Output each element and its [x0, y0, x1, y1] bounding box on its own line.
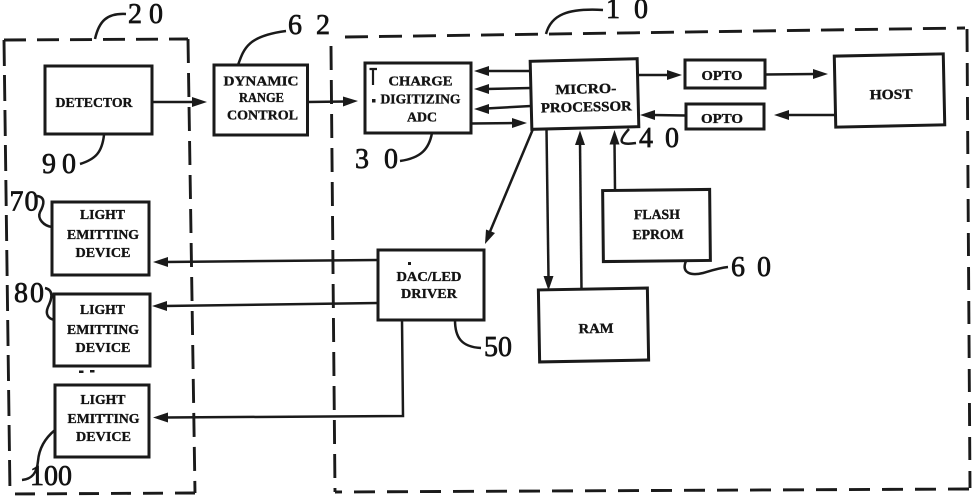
- dashed enclosure 20: [4, 39, 195, 494]
- box DETECTOR: [45, 66, 152, 134]
- wire DYNAMIC RANGE CONTROL to ADC: [307, 97, 358, 107]
- svg-text:DETECTOR: DETECTOR: [56, 96, 134, 111]
- svg-text:ADC: ADC: [407, 111, 437, 126]
- svg-text:FLASH: FLASH: [634, 208, 680, 223]
- svg-text:RANGE: RANGE: [239, 91, 284, 106]
- svg-text:70: 70: [10, 187, 40, 218]
- wire MICRO-PROCESSOR to OPTO top: [637, 70, 682, 80]
- wire DETECTOR to DYNAMIC RANGE CONTROL: [152, 97, 207, 107]
- box MICRO-PROCESSOR: [530, 59, 639, 130]
- wire MICRO-PROCESSOR to ADC bus line 2: [474, 84, 531, 94]
- label 100 with leader: [22, 430, 72, 492]
- wire HOST to OPTO bottom: [774, 110, 835, 120]
- box LIGHT EMITTING DEVICE 100: [55, 385, 149, 457]
- svg-text:MICRO-: MICRO-: [555, 82, 617, 98]
- svg-text:CHARGE: CHARGE: [389, 75, 453, 90]
- label 10 with leader: [546, 0, 662, 34]
- svg-text:20: 20: [128, 0, 170, 30]
- svg-text:EMITTING: EMITTING: [67, 228, 139, 243]
- wire OPTO top to HOST: [765, 69, 828, 79]
- svg-text:HOST: HOST: [869, 87, 913, 103]
- svg-text:PROCESSOR: PROCESSOR: [541, 99, 633, 116]
- label 60 with leader: [685, 252, 783, 283]
- label 40 with leader: [622, 123, 691, 154]
- svg-text:DYNAMIC: DYNAMIC: [224, 75, 299, 90]
- wire DAC/LED DRIVER to LIGHT EMITTING DEVICE 80: [152, 301, 378, 311]
- dashed enclosure 10: [331, 28, 970, 492]
- box DYNAMIC RANGE CONTROL: [214, 65, 308, 135]
- wire RAM to MICRO-PROCESSOR read: [575, 131, 585, 291]
- box RAM: [538, 288, 648, 362]
- svg-text:RAM: RAM: [578, 322, 613, 338]
- svg-text:80: 80: [14, 278, 46, 309]
- label 50 with leader: [455, 320, 512, 363]
- svg-text:LIGHT: LIGHT: [81, 393, 127, 408]
- svg-text:OPTO: OPTO: [701, 112, 743, 127]
- svg-text:LIGHT: LIGHT: [80, 303, 126, 318]
- label 90 with leader: [42, 135, 104, 180]
- box OPTO bottom: [686, 104, 764, 129]
- box DAC/LED DRIVER: [378, 250, 484, 320]
- box LIGHT EMITTING DEVICE 80: [54, 294, 150, 366]
- box OPTO top: [685, 60, 765, 88]
- svg-text:CONTROL: CONTROL: [227, 109, 298, 124]
- wire MICRO-PROCESSOR to RAM write: [544, 129, 554, 291]
- wire OPTO bottom to MICRO-PROCESSOR: [640, 110, 686, 120]
- svg-text:DAC/LED: DAC/LED: [397, 270, 462, 285]
- svg-text:62: 62: [288, 10, 344, 41]
- label 62 with leader: [238, 10, 344, 65]
- wire DAC/LED DRIVER to LIGHT EMITTING DEVICE 100: [153, 320, 403, 423]
- svg-text:100: 100: [30, 461, 72, 492]
- svg-text:DRIVER: DRIVER: [401, 287, 458, 302]
- label 30 with leader: [355, 133, 432, 175]
- svg-text:10: 10: [606, 0, 662, 25]
- svg-text:DEVICE: DEVICE: [76, 341, 131, 356]
- box LIGHT EMITTING DEVICE 70: [52, 202, 149, 275]
- stray scan marks below LED 80: [79, 370, 95, 373]
- svg-text:EMITTING: EMITTING: [67, 323, 139, 338]
- svg-text:LIGHT: LIGHT: [80, 208, 126, 223]
- svg-text:DEVICE: DEVICE: [76, 430, 131, 445]
- svg-text:30: 30: [355, 144, 413, 175]
- wire DAC/LED DRIVER to LIGHT EMITTING DEVICE 70: [153, 257, 378, 267]
- label 70 with leader: [10, 187, 53, 228]
- svg-text:90: 90: [42, 149, 82, 180]
- svg-text:60: 60: [731, 252, 783, 283]
- svg-text:40: 40: [639, 123, 691, 154]
- label 20 with leader: [95, 0, 170, 39]
- wire MICRO-PROCESSOR to ADC bus line 1: [474, 66, 531, 76]
- svg-text:OPTO: OPTO: [702, 69, 743, 84]
- svg-text:EPROM: EPROM: [633, 228, 684, 244]
- box HOST: [834, 54, 944, 127]
- svg-text:DIGITIZING: DIGITIZING: [381, 93, 461, 108]
- wire FLASH EPROM to MICRO-PROCESSOR: [610, 130, 620, 190]
- svg-text:EMITTING: EMITTING: [68, 412, 140, 427]
- wire ADC to MICRO-PROCESSOR line 4: [471, 118, 527, 128]
- svg-text:50: 50: [484, 332, 512, 363]
- svg-text:DEVICE: DEVICE: [76, 246, 131, 261]
- box CHARGE DIGITIZING ADC: [365, 63, 471, 133]
- wire MICRO-PROCESSOR to DAC/LED DRIVER diagonal: [485, 129, 533, 244]
- label 80 with leader: [14, 278, 55, 320]
- box FLASH EPROM: [603, 189, 711, 261]
- wire MICRO-PROCESSOR to ADC bus line 3: [474, 104, 531, 114]
